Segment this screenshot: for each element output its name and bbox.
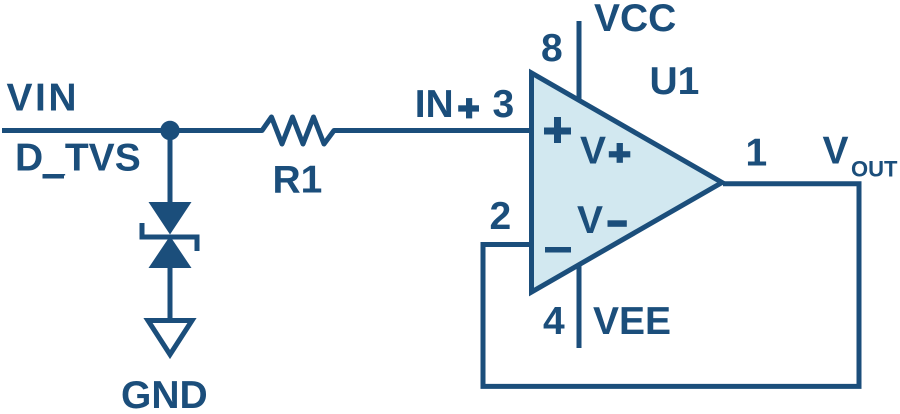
- svg-text:OUT: OUT: [851, 157, 898, 182]
- svg-text:V: V: [823, 130, 849, 173]
- svg-text:VCC: VCC: [594, 0, 676, 40]
- svg-text:VIN: VIN: [7, 77, 80, 120]
- svg-text:V: V: [580, 130, 606, 173]
- svg-text:R1: R1: [273, 159, 323, 202]
- svg-text:1: 1: [746, 132, 768, 175]
- svg-text:3: 3: [493, 83, 515, 126]
- svg-text:2: 2: [490, 195, 512, 238]
- svg-text:V: V: [577, 199, 603, 242]
- svg-text:U1: U1: [650, 60, 700, 103]
- svg-text:4: 4: [543, 300, 565, 343]
- svg-text:VEE: VEE: [593, 300, 671, 343]
- svg-text:D_TVS: D_TVS: [15, 137, 141, 180]
- svg-text:GND: GND: [121, 374, 208, 414]
- svg-text:8: 8: [541, 27, 563, 70]
- svg-text:IN: IN: [415, 83, 454, 126]
